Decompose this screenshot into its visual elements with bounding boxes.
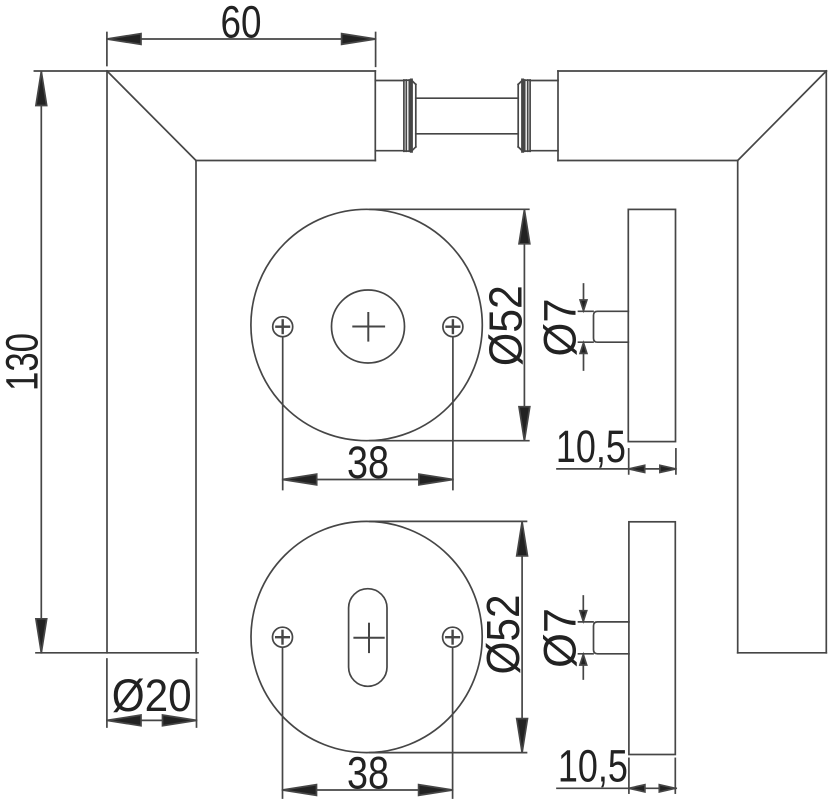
- svg-text:Ø52: Ø52: [477, 595, 529, 675]
- dimension 38 bottom: [283, 648, 453, 798]
- svg-text:10,5: 10,5: [558, 741, 628, 792]
- bottom rosette side view: [594, 522, 676, 755]
- right lever neck: [530, 81, 558, 151]
- svg-text:Ø7: Ø7: [535, 299, 586, 357]
- left lever neck: [375, 80, 404, 151]
- bottom rosette face: [251, 521, 482, 752]
- dimension 60: [107, 0, 376, 66]
- svg-text:Ø7: Ø7: [535, 608, 586, 668]
- svg-text:38: 38: [347, 437, 389, 488]
- right lever handle L-shape: [558, 71, 826, 653]
- spindle: [416, 98, 518, 134]
- dimension 10,5 top: [556, 421, 676, 474]
- dimension D52 bottom: [370, 521, 529, 752]
- bottom rosette right screw: [443, 627, 463, 647]
- svg-text:10,5: 10,5: [556, 421, 626, 472]
- svg-text:38: 38: [347, 747, 389, 798]
- svg-text:Ø52: Ø52: [480, 285, 532, 366]
- bottom rosette keyhole slot with cross: [349, 589, 387, 687]
- top rosette left screw: [273, 317, 293, 337]
- top rosette center hole with cross: [332, 290, 405, 363]
- dimension 130: [0, 71, 107, 653]
- right spindle collar: [518, 80, 530, 151]
- dimension D7 bottom: [535, 596, 594, 679]
- bottom rosette left screw: [273, 627, 293, 647]
- svg-text:Ø20: Ø20: [112, 670, 192, 721]
- dimension D52 top: [370, 209, 532, 440]
- dimension 38 top: [283, 338, 453, 490]
- dimension D20: [107, 659, 197, 727]
- svg-text:130: 130: [0, 333, 48, 391]
- left lever handle L-shape: [36, 71, 375, 653]
- top rosette side view: [594, 209, 676, 441]
- left spindle collar: [404, 80, 416, 151]
- dimension 10,5 bottom: [557, 741, 676, 794]
- svg-text:60: 60: [221, 0, 262, 48]
- top rosette right screw: [443, 317, 463, 337]
- top rosette face: [251, 209, 482, 440]
- dimension D7 top: [535, 284, 594, 370]
